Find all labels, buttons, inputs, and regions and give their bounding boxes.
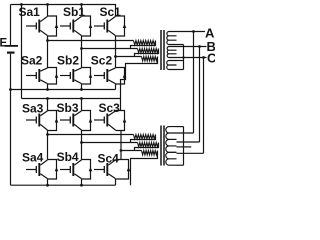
wire Sb3 collector — [81, 99, 83, 111]
node output C tap — [202, 56, 205, 59]
label Sc3 — [99, 101, 121, 115]
transistor Sa3 — [26, 111, 58, 131]
node battery / bottom rail 1 — [9, 88, 12, 91]
label Sc2 — [91, 53, 113, 67]
battery E negative lead — [10, 54, 12, 186]
winding T1 primary A — [134, 41, 156, 45]
wire phase A bridge-1 — [48, 40, 134, 42]
label Sb4 — [57, 150, 79, 164]
winding T2 primary C — [142, 151, 158, 155]
transistor Sc4 — [94, 160, 130, 180]
svg-text:Sc2: Sc2 — [91, 53, 113, 67]
wire leg B midpoint — [81, 36, 83, 68]
node collector Sb3 — [80, 97, 83, 100]
node top rail / left bus junction — [20, 3, 23, 6]
wire phase C bridge-2 — [121, 150, 142, 152]
wire series link phase B — [199, 47, 201, 143]
node output B tap — [198, 45, 201, 48]
node phase C bridge-1 — [114, 55, 117, 58]
svg-text:Sb1: Sb1 — [63, 5, 85, 19]
winding T2 primary B — [138, 143, 159, 147]
winding T1 primary C — [142, 57, 158, 61]
svg-text:Sa2: Sa2 — [21, 53, 43, 67]
winding T1 secondary b — [167, 47, 176, 58]
wire Sa1 collector — [47, 5, 49, 17]
node phase B bridge-1 — [80, 47, 83, 50]
battery E plates — [5, 46, 19, 53]
label Sa4 — [22, 150, 44, 164]
wire Sb2 emitter stub — [81, 84, 83, 90]
wire Sb4 emitter stub — [81, 179, 83, 185]
transistor Sa2 — [26, 68, 58, 85]
node Sa4 emitter — [46, 184, 49, 187]
label Sb2 — [57, 53, 79, 67]
svg-text:Sa1: Sa1 — [19, 5, 41, 19]
wire T1 primary C return — [121, 57, 158, 111]
node collector Sa3 — [46, 97, 49, 100]
wire phase B bridge-2 — [82, 142, 138, 144]
label B — [207, 39, 216, 54]
node Sb2 emitter — [80, 88, 83, 91]
wire T2 primary B return — [135, 143, 159, 151]
winding T2 primary A — [134, 135, 156, 139]
node phase B bridge-2 — [80, 141, 83, 144]
transistor Sb1 — [60, 16, 92, 36]
transistor Sb4 — [60, 160, 92, 180]
wire T1 sec link top — [177, 44, 184, 46]
wire T2 sec link bottom — [177, 164, 184, 166]
wire leg C midpoint — [115, 36, 117, 68]
wire Sc4 emitter stub — [115, 179, 117, 185]
wire leg C midpoint bridge-2 — [120, 131, 122, 160]
svg-text:Sc3: Sc3 — [99, 101, 121, 115]
svg-text:Sa4: Sa4 — [22, 150, 44, 164]
wire bridge-1 bottom rail — [11, 89, 116, 91]
wire T1 sec link vertical — [183, 45, 185, 70]
wire top DC rail — [11, 5, 116, 17]
wire T1 sec link mid — [177, 60, 184, 62]
wire phase A bridge-2 — [48, 134, 134, 136]
wire T2 sec lead to B chain — [177, 141, 200, 143]
label Sa1 — [19, 5, 41, 19]
wire output C — [177, 57, 207, 59]
wire Sc2 emitter stub — [115, 84, 117, 90]
svg-text:E: E — [0, 37, 8, 49]
label Sb1 — [63, 5, 85, 19]
transistor Sc1 — [94, 16, 126, 36]
svg-text:Sb4: Sb4 — [57, 150, 79, 164]
wire leg B midpoint bridge-2 — [81, 131, 83, 160]
transistor Sc3 — [94, 111, 126, 131]
label Sb3 — [57, 101, 79, 115]
wire output A — [177, 31, 206, 33]
wire leg A midpoint — [47, 36, 49, 68]
node collector Sb1 — [80, 3, 83, 6]
label C — [207, 50, 217, 65]
transistor Sb3 — [60, 111, 92, 131]
wire T2 primary A return — [131, 135, 156, 143]
wire Sa4 emitter stub — [47, 179, 49, 185]
wire phase B bridge-1 — [82, 48, 138, 50]
battery E positive lead — [10, 5, 12, 46]
winding T1 secondary c — [167, 61, 177, 70]
winding T2 secondary a — [166, 127, 177, 140]
wire bridge-2 top rail — [22, 98, 121, 100]
wire T2 sec lead to C chain — [177, 152, 204, 154]
winding T1 secondary a — [167, 32, 177, 45]
wire T1 primary B return — [135, 49, 159, 57]
label Sa3 — [22, 101, 44, 115]
node Sb4 emitter — [80, 184, 83, 187]
core T2 — [161, 126, 164, 166]
winding T2 secondary b — [166, 139, 177, 152]
node T1 sec link / C line — [182, 56, 184, 58]
label Sc4 — [98, 151, 120, 165]
core T1 — [161, 30, 164, 70]
svg-text:Sc1: Sc1 — [100, 5, 122, 19]
node output A tap — [192, 30, 195, 33]
svg-text:C: C — [207, 50, 215, 65]
wire T2 sec lead to A chain — [177, 132, 194, 134]
label Sa2 — [21, 53, 43, 67]
wire series link phase A — [193, 32, 195, 134]
node collector Sa1 — [46, 3, 49, 6]
wire T2 sec link vertical — [183, 127, 185, 166]
wire left bus to bridge-2 rail — [21, 5, 23, 99]
winding T1 primary B — [138, 49, 159, 53]
node phase C bridge-2 — [120, 149, 123, 152]
svg-text:Sb3: Sb3 — [57, 101, 79, 115]
wire output B — [177, 46, 207, 48]
wire Sb1 collector — [81, 5, 83, 17]
wire Sa3 collector — [47, 99, 49, 111]
winding T2 secondary c — [166, 152, 177, 165]
wire series link phase C — [203, 58, 205, 154]
wire T2 sec stub — [177, 146, 192, 148]
wire T2 primary C return — [131, 151, 158, 186]
transistor Sa4 — [26, 160, 58, 180]
wire leg A midpoint bridge-2 — [47, 131, 49, 160]
label A — [205, 25, 215, 40]
label Sc1 — [100, 5, 122, 19]
wire T1 sec link bottom — [177, 69, 184, 71]
transistor Sa1 — [26, 16, 58, 36]
transistor Sb2 — [60, 68, 92, 85]
svg-text:Sa3: Sa3 — [22, 101, 44, 115]
wire Sa2 emitter stub — [47, 84, 49, 90]
wire T1 primary A return — [131, 41, 156, 49]
wire phase C bridge-1 — [116, 56, 142, 58]
wire bridge-2 bottom rail — [11, 184, 116, 186]
node phase A bridge-1 — [46, 39, 49, 42]
battery E label — [0, 37, 8, 49]
node Sa2 emitter — [46, 88, 49, 91]
svg-text:Sc4: Sc4 — [98, 151, 120, 165]
wire T2 sec link top — [177, 126, 184, 128]
transistor Sc2 — [94, 68, 126, 85]
svg-text:Sb2: Sb2 — [57, 53, 79, 67]
node phase A bridge-2 — [46, 133, 49, 136]
